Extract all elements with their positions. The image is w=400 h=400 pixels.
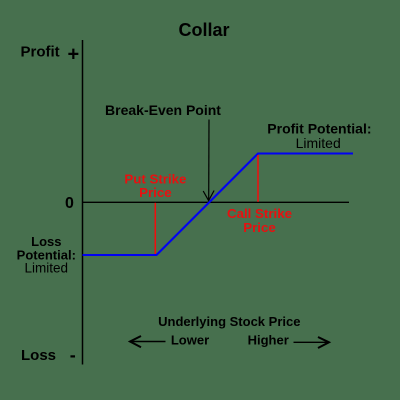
svg-text:Loss: Loss <box>21 347 56 364</box>
break-even arrow shaft <box>208 120 210 201</box>
call strike red line <box>257 155 259 202</box>
svg-text:Lower: Lower <box>171 333 209 348</box>
blue payoff line <box>83 154 354 256</box>
lower arrow (left) <box>130 341 166 343</box>
svg-text:Price: Price <box>243 220 276 235</box>
svg-text:Underlying Stock Price: Underlying Stock Price <box>158 314 300 329</box>
svg-text:0: 0 <box>65 195 74 212</box>
break-even arrowhead <box>203 191 214 201</box>
svg-text:Price: Price <box>139 185 172 200</box>
svg-text:-: - <box>70 345 76 365</box>
svg-text:Limited: Limited <box>25 261 69 276</box>
put strike red line <box>154 203 156 254</box>
svg-text:Profit: Profit <box>21 44 60 61</box>
svg-text:Collar: Collar <box>178 20 229 40</box>
svg-text:Call Strike: Call Strike <box>227 206 292 221</box>
svg-text:+: + <box>67 44 79 66</box>
higher arrow (right) <box>294 341 329 343</box>
y-axis <box>82 40 84 365</box>
zero line (x-axis) <box>83 201 350 203</box>
svg-text:Higher: Higher <box>248 333 289 348</box>
svg-text:Limited: Limited <box>296 135 341 151</box>
svg-text:Break-Even Point: Break-Even Point <box>105 102 221 118</box>
